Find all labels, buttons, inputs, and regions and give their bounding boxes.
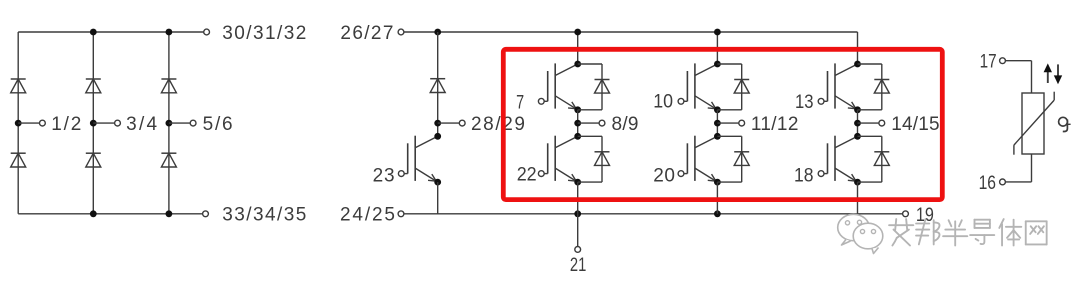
diode D6 (lower, leg 3) xyxy=(161,153,176,167)
diode across IGBT 18 xyxy=(858,136,890,182)
diode across IGBT 22 xyxy=(578,136,610,182)
svg-text:24/25: 24/25 xyxy=(340,205,395,226)
terminal 16 xyxy=(979,173,1006,194)
svg-text:18: 18 xyxy=(794,165,814,186)
wire brake diode leg xyxy=(437,32,439,136)
label gate terminal 10 xyxy=(653,92,673,113)
terminal 17 xyxy=(980,51,1006,72)
diode D4 (lower, leg 1) xyxy=(11,153,26,167)
bidirectional arrows near thermistor xyxy=(1044,63,1063,84)
wire IGBT 23 emitter to DC- rail xyxy=(437,182,439,214)
transistor low-side IGBT 18 xyxy=(818,133,861,186)
thermistor R1 characteristic diagonal xyxy=(1014,92,1054,155)
label gate terminal 18 xyxy=(794,165,814,186)
label gate terminal 20 xyxy=(653,166,675,187)
svg-text:14/15: 14/15 xyxy=(891,114,939,135)
svg-text:16: 16 xyxy=(979,173,996,194)
wire from terminal 26/27 to DC+ rail xyxy=(404,31,438,33)
terminal 24/25 xyxy=(340,205,404,226)
label gate terminal 13 xyxy=(795,92,814,113)
junction bottom rail / leg 2 xyxy=(90,210,97,217)
terminal 11/12 xyxy=(739,114,799,135)
watermark character wang xyxy=(1026,221,1047,244)
svg-text:8/9: 8/9 xyxy=(612,114,639,135)
terminal 26/27 xyxy=(340,23,404,44)
terminal 28/29 xyxy=(459,114,525,135)
wire inverter leg 3 bottom vertical xyxy=(857,182,859,214)
thermistor R1 body xyxy=(1022,93,1044,154)
wire bottom rail of rectifier bridge xyxy=(18,213,202,215)
svg-text:7: 7 xyxy=(516,93,524,114)
node AC phase 5/6 xyxy=(166,120,191,127)
watermark character ai xyxy=(889,219,913,245)
svg-text:10: 10 xyxy=(653,92,673,113)
transistor high-side IGBT 10 xyxy=(678,61,721,114)
junction bottom rail / leg 3 xyxy=(166,210,173,217)
label gate terminal 7 xyxy=(516,93,524,114)
node phase output 14/15 xyxy=(854,120,879,127)
svg-text:17: 17 xyxy=(980,51,997,72)
junction DC+ rail / inverter leg 1 xyxy=(574,29,581,36)
wire top rail of rectifier bridge xyxy=(18,31,204,33)
watermark character bang xyxy=(916,219,939,244)
svg-text:22: 22 xyxy=(517,164,537,185)
wire DC- bottom rail xyxy=(404,213,903,215)
node phase output 11/12 xyxy=(714,120,739,127)
diode across IGBT 13 xyxy=(858,64,890,110)
transistor high-side IGBT 7 xyxy=(538,61,581,114)
terminal 30/31/32 xyxy=(204,23,307,44)
diode D3 (upper, leg 3) xyxy=(161,79,176,93)
diode D5 (lower, leg 2) xyxy=(86,153,101,167)
wire inverter leg 2 bottom vertical xyxy=(716,182,718,214)
terminal 33/34/35 xyxy=(203,205,307,226)
label gate terminal 22 xyxy=(517,164,537,185)
watermark character ban xyxy=(943,220,967,245)
diode across IGBT 7 xyxy=(578,64,610,110)
node phase output 8/9 xyxy=(574,120,599,127)
wire rectifier leg 1 xyxy=(17,32,19,214)
terminal 21 xyxy=(570,247,586,277)
wire inverter leg 2 midpoint vertical xyxy=(716,110,718,137)
watermark character dao xyxy=(970,220,994,244)
svg-text:30/31/32: 30/31/32 xyxy=(222,23,306,44)
wire terminal 17 to thermistor xyxy=(1005,61,1031,93)
wire DC+ top rail xyxy=(438,31,858,33)
wire rectifier leg 3 xyxy=(168,32,170,214)
transistor Q7 IGBT 23 xyxy=(398,133,441,186)
terminal 1/2 xyxy=(40,114,82,135)
diode D1 (upper, leg 1) xyxy=(11,79,26,93)
svg-text:20: 20 xyxy=(653,166,675,187)
wire inverter leg 1 top vertical xyxy=(577,32,579,64)
svg-text:33/34/35: 33/34/35 xyxy=(222,205,306,226)
junction DC+ rail at brake leg xyxy=(434,29,441,36)
wire inverter leg 1 midpoint vertical xyxy=(577,110,579,137)
wire inverter leg 3 midpoint vertical xyxy=(857,110,859,137)
terminal 14/15 xyxy=(879,114,940,135)
junction DC- rail at inverter leg 2 xyxy=(714,210,721,217)
terminal 8/9 xyxy=(599,114,638,135)
wire inverter leg 1 bottom vertical xyxy=(577,182,579,214)
red highlight box around inverter xyxy=(503,49,942,199)
svg-text:28/29: 28/29 xyxy=(471,114,525,135)
wire rectifier leg 2 xyxy=(92,32,94,214)
terminal 3/4 xyxy=(115,114,158,135)
node AC phase 3/4 xyxy=(90,120,115,127)
transistor high-side IGBT 13 xyxy=(818,61,861,114)
svg-text:3/4: 3/4 xyxy=(126,114,157,135)
wire inverter leg 3 top vertical xyxy=(857,32,859,64)
transistor low-side IGBT 22 xyxy=(538,133,581,186)
svg-text:21: 21 xyxy=(570,255,586,276)
IGBT 23 (brake chopper) with label xyxy=(373,166,395,187)
terminal 5/6 xyxy=(190,114,232,135)
junction top rail / leg 3 xyxy=(166,29,173,36)
transistor low-side IGBT 20 xyxy=(678,133,721,186)
diode D7 (brake) xyxy=(430,79,445,93)
svg-text:13: 13 xyxy=(795,92,814,113)
watermark wechat logo xyxy=(838,214,883,253)
diode across IGBT 20 xyxy=(717,136,749,182)
junction DC+ rail / inverter leg 2 xyxy=(714,29,721,36)
svg-text:1/2: 1/2 xyxy=(51,114,81,135)
wire stub to terminal 21 xyxy=(574,210,581,246)
node 28/29 xyxy=(434,120,459,127)
junction top rail / leg 2 xyxy=(90,29,97,36)
node AC phase 1/2 xyxy=(15,120,40,127)
svg-text:5/6: 5/6 xyxy=(203,114,233,135)
svg-text:11/12: 11/12 xyxy=(751,114,799,135)
diode across IGBT 10 xyxy=(717,64,749,110)
watermark character ti xyxy=(999,219,1021,245)
diode D2 (upper, leg 2) xyxy=(86,79,101,93)
svg-text:23: 23 xyxy=(373,166,395,187)
svg-text:26/27: 26/27 xyxy=(340,23,393,44)
theta symbol label xyxy=(1059,117,1071,131)
wire thermistor to terminal 16 xyxy=(1005,154,1031,182)
wire inverter leg 2 top vertical xyxy=(716,32,718,64)
terminal 19 xyxy=(903,205,934,226)
